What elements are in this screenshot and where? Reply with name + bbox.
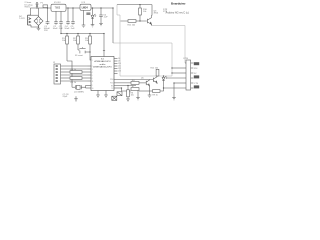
svg-text:10uF: 10uF bbox=[53, 28, 59, 30]
svg-text:PD1: PD1 bbox=[110, 83, 113, 85]
label DC jack annotations bbox=[19, 2, 33, 20]
label Q5 bbox=[141, 77, 145, 79]
LED PWR bbox=[91, 8, 96, 25]
wire row TX bbox=[114, 87, 122, 89]
node junction 163.5,88 bbox=[163, 87, 164, 88]
label R6 bbox=[131, 92, 134, 96]
svg-text:.1uF: .1uF bbox=[58, 28, 63, 30]
svg-text:IC4 5V: IC4 5V bbox=[54, 2, 61, 4]
label J2 bbox=[53, 62, 56, 64]
resistor R2 bbox=[77, 34, 80, 51]
wire FTDI pin2 bbox=[172, 67, 186, 69]
resistor R7 bbox=[131, 82, 139, 85]
IC2 right pin labels bbox=[118, 58, 121, 72]
svg-text:FTDI: FTDI bbox=[184, 58, 189, 60]
label R7 bbox=[132, 80, 136, 82]
label R8 bbox=[132, 86, 134, 88]
connector J2 header bbox=[54, 64, 61, 84]
wire Q3 collector to DTR rail bbox=[151, 5, 154, 16]
wire gray jog below DTR rail corner bbox=[117, 5, 120, 15]
resistor R12 bbox=[156, 69, 159, 76]
FTDI pin label BLK bbox=[194, 85, 199, 88]
wire FTDI pin1 bbox=[185, 62, 186, 64]
node junction 163.5,76 bbox=[163, 75, 164, 76]
node junction 113,8 bbox=[112, 7, 113, 8]
node junction 140,21 bbox=[139, 20, 140, 21]
svg-text:R4 1k: R4 1k bbox=[71, 69, 77, 71]
node junction 121.5,88 bbox=[121, 87, 122, 88]
svg-text:7-12V: 7-12V bbox=[19, 18, 25, 20]
svg-text:R11 10k: R11 10k bbox=[128, 24, 137, 26]
svg-text:22pF: 22pF bbox=[63, 96, 68, 98]
svg-text:1k: 1k bbox=[132, 86, 134, 88]
wire bridge plus up bbox=[38, 8, 40, 17]
capacitor C1 bbox=[46, 8, 50, 25]
ground Q4 bbox=[148, 95, 152, 97]
ground below bridge bbox=[37, 28, 41, 30]
pad box X2 bbox=[112, 96, 117, 100]
wire R7 to Q4 base bbox=[139, 82, 146, 84]
label C6 bbox=[103, 14, 108, 18]
resistor R8 bbox=[131, 88, 139, 91]
node junction 174,83 bbox=[173, 82, 174, 83]
wire FTDI pin4 bbox=[166, 77, 186, 79]
label R9 bbox=[153, 94, 158, 96]
ground FTDI bbox=[172, 98, 176, 100]
wire TX down to row2 bbox=[122, 88, 132, 91]
wire gray net y43 bbox=[113, 42, 172, 44]
label Q1 16MHz bbox=[74, 91, 84, 93]
node junction 67,33.5 bbox=[66, 33, 67, 34]
label C4 bbox=[64, 26, 70, 30]
svg-text:2: 2 bbox=[92, 66, 93, 68]
svg-text:ATMEGA168-20PU: ATMEGA168-20PU bbox=[93, 65, 112, 68]
label R5 bbox=[71, 82, 77, 84]
svg-text:R12 10k: R12 10k bbox=[151, 68, 158, 70]
wire reset into IC bbox=[90, 52, 91, 60]
svg-text:10uF: 10uF bbox=[64, 28, 70, 30]
node junction 104,33.5 bbox=[103, 33, 104, 34]
svg-text:D13: D13 bbox=[118, 71, 121, 73]
wire jack minus to bridge bottom bbox=[31, 25, 39, 27]
resistor R10 bbox=[139, 5, 142, 21]
svg-text:5: 5 bbox=[92, 75, 93, 77]
wire gray vertical x185 to FTDI bbox=[184, 26, 186, 64]
wire FTDI pin3 bbox=[171, 72, 172, 73]
regulator IC3 bbox=[80, 4, 91, 10]
node junction 68,8 bbox=[67, 7, 68, 8]
capacitor C4 bbox=[66, 8, 70, 25]
node junction 78,33.5 bbox=[77, 33, 78, 34]
IC2 left pin stubs bbox=[88, 66, 92, 81]
label S1 bbox=[75, 54, 83, 57]
svg-text:1: 1 bbox=[92, 60, 93, 62]
crystal Q1 bbox=[72, 85, 91, 89]
svg-text:.1uF: .1uF bbox=[70, 28, 75, 30]
label R4 bbox=[71, 69, 77, 71]
svg-text:R5 1k: R5 1k bbox=[71, 82, 77, 84]
ground IC2 right bbox=[104, 95, 108, 97]
wire 5V rail after reg bbox=[66, 7, 80, 9]
node junction 90,33.5 bbox=[89, 33, 90, 34]
resistor R6 bbox=[127, 86, 130, 100]
node junction 90,52 bbox=[89, 51, 90, 52]
node junction 172,68 bbox=[171, 67, 172, 68]
wire VCC drop to IC bbox=[103, 34, 105, 57]
wires J2 to IC2 bbox=[61, 66, 88, 81]
svg-text:7805: 7805 bbox=[55, 7, 61, 10]
wire IC3 gnd down bbox=[83, 10, 85, 25]
FTDI pin label 5V bbox=[194, 73, 197, 75]
label IC4 bbox=[54, 2, 61, 4]
svg-text:CTS: CTS bbox=[194, 83, 199, 85]
IC2 right pin names inner bbox=[110, 79, 114, 90]
node junction 61,33.5 bbox=[60, 33, 61, 34]
ground C6 bbox=[99, 23, 103, 25]
wire DTR rail bbox=[117, 4, 152, 6]
svg-text:Arduino NG rev.C (c): Arduino NG rev.C (c) bbox=[166, 12, 189, 15]
ground IC3 bbox=[82, 25, 86, 27]
svg-text:S1 reset: S1 reset bbox=[75, 54, 83, 57]
svg-text:4: 4 bbox=[92, 72, 93, 74]
wire gray vertical x172 bbox=[171, 43, 173, 76]
wire base line bbox=[121, 20, 147, 22]
wire IC2 gnd stub right bbox=[105, 91, 107, 96]
svg-text:3: 3 bbox=[92, 69, 93, 71]
label F1 bbox=[41, 2, 44, 4]
connector X1 DC jack bbox=[28, 15, 32, 25]
svg-text:Q1 16MHz: Q1 16MHz bbox=[74, 91, 84, 93]
label C5 bbox=[70, 26, 75, 30]
resistor R1 bbox=[66, 34, 69, 62]
wire 5V drop x113 bbox=[112, 8, 114, 43]
wire gnd drop x174 bbox=[173, 83, 175, 98]
FTDI pin label RXI bbox=[194, 68, 198, 70]
svg-text:10k: 10k bbox=[131, 94, 134, 96]
label R10 bbox=[143, 9, 148, 13]
ground IC2 left bbox=[96, 95, 100, 97]
node junction 73,8 bbox=[72, 7, 73, 8]
node junction 128,85.5 bbox=[127, 85, 128, 86]
wire FTDI pin5 bbox=[174, 82, 186, 84]
wire row RX bbox=[114, 85, 136, 87]
svg-text:PD0: PD0 bbox=[110, 79, 113, 81]
svg-text:25V: 25V bbox=[44, 30, 48, 32]
svg-text:Boarduino: Boarduino bbox=[171, 2, 186, 6]
node junction 47.5,8 bbox=[47, 7, 48, 8]
switch S1 reset bbox=[78, 47, 90, 53]
bridge rectifier B1 bbox=[34, 17, 43, 26]
wire IC2 gnd stub left bbox=[97, 91, 99, 96]
node junction 101,8 bbox=[100, 7, 101, 8]
label R3 bbox=[85, 38, 89, 42]
label C3 bbox=[58, 26, 63, 30]
label net DTR bbox=[163, 9, 168, 13]
wire R1 over to IC area bbox=[67, 61, 72, 87]
ground mid cluster bbox=[136, 90, 140, 100]
svg-text:10: 10 bbox=[92, 88, 94, 90]
node junction 157,76 bbox=[156, 75, 157, 76]
wire gray vertical x120 bbox=[119, 15, 121, 76]
label IC3 bbox=[82, 2, 86, 4]
ground crystal bbox=[74, 96, 78, 101]
svg-text:11: 11 bbox=[92, 81, 94, 83]
wire gray return y76 bbox=[120, 75, 172, 77]
wire 5V mid rail bbox=[61, 33, 104, 35]
svg-text:ATMEGA8-16PU: ATMEGA8-16PU bbox=[94, 60, 111, 63]
wire bridge minus down bbox=[38, 26, 40, 29]
label R12 bbox=[151, 68, 158, 70]
LED D2 bbox=[162, 76, 167, 88]
resistor R3 bbox=[89, 34, 92, 53]
label R11 bbox=[128, 24, 137, 26]
label C2 bbox=[53, 26, 59, 30]
wire Vin rail bbox=[31, 7, 52, 9]
svg-text:9: 9 bbox=[92, 85, 93, 87]
svg-text:6: 6 bbox=[92, 78, 93, 80]
IC2 ATMEGA box bbox=[91, 57, 114, 91]
resistor R11 bbox=[128, 20, 136, 23]
wire 5V rail to logic bbox=[91, 7, 113, 9]
transistor Q3 bbox=[147, 15, 151, 25]
label box out bbox=[86, 12, 90, 15]
transistor Q4 bbox=[146, 80, 149, 96]
regulator IC4 7805 bbox=[51, 4, 66, 11]
resistor R4 bbox=[70, 71, 82, 74]
resistor R9 bbox=[139, 88, 164, 92]
svg-text:LM34: LM34 bbox=[82, 6, 89, 9]
IC2 left pin numbers bbox=[92, 60, 94, 90]
IC2 right pin stubs top bbox=[114, 59, 118, 74]
label C1 bbox=[44, 26, 51, 32]
resistor R5 bbox=[70, 77, 82, 80]
node junction 140,4.6 bbox=[139, 4, 140, 5]
label R1 bbox=[62, 38, 66, 42]
label C7 C8 bbox=[63, 94, 70, 98]
svg-text:9VDC: 9VDC bbox=[25, 7, 31, 9]
node junction bridge bottom bbox=[38, 26, 39, 27]
svg-text:.1uF: .1uF bbox=[103, 17, 108, 19]
wire jack plus up to rail bbox=[28, 14, 39, 16]
fuse F1 bbox=[43, 5, 48, 8]
transistor Q5 bbox=[153, 76, 157, 84]
ground R6 bbox=[126, 99, 130, 101]
node junction 37,8 bbox=[36, 7, 37, 8]
label J1 bbox=[184, 58, 189, 60]
capacitor C5 bbox=[71, 8, 75, 25]
label R2 bbox=[73, 38, 77, 42]
ground LED PWR bbox=[91, 25, 95, 27]
connector J1 FTDI bbox=[186, 60, 193, 90]
FTDI pin label GRN bbox=[194, 62, 199, 65]
pad box X3 bbox=[117, 92, 122, 96]
wire row PD0 bbox=[114, 79, 153, 81]
label IC2 bbox=[93, 59, 112, 69]
FTDI pin label TXO bbox=[194, 75, 199, 78]
FTDI pin label VCC bbox=[194, 83, 199, 85]
svg-text:R9 1k: R9 1k bbox=[153, 94, 158, 96]
label Q3 bbox=[154, 10, 159, 14]
capacitor C3 bbox=[59, 11, 63, 33]
wire gray emitter net y25.5 bbox=[152, 25, 186, 27]
node junction 92.5,8 bbox=[92, 7, 93, 8]
diode D1 bbox=[36, 2, 38, 8]
wire row PD1 bbox=[114, 82, 131, 84]
wire FTDI pin6 TX bbox=[164, 87, 187, 89]
capacitor C2 bbox=[54, 11, 58, 24]
capacitor C6 bbox=[99, 8, 103, 23]
svg-text:RXI: RXI bbox=[194, 68, 198, 70]
